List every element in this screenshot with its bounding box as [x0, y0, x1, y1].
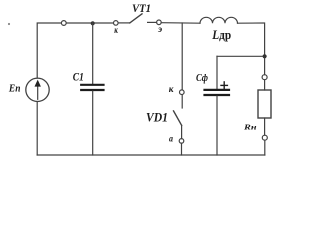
transistor VT1 collector stub — [118, 22, 130, 24]
transistor VT1 collector contact circle — [114, 21, 119, 26]
svg-text:а: а — [169, 134, 173, 144]
capacitor Cf top plate — [205, 89, 230, 91]
wire top rail inductor to right corner and down — [238, 23, 265, 54]
wire Cf vertical lower — [216, 96, 218, 155]
wire VD1 anode to bottom rail — [181, 143, 183, 155]
diode VD1 switch blade — [174, 111, 182, 125]
wire top rail terminal to junction — [66, 22, 92, 24]
capacitor Cf bottom plate — [205, 94, 230, 96]
wire C1 branch lower — [92, 91, 94, 155]
node Rn bottom terminal circle — [262, 135, 267, 140]
wire top rail emitter to inductor — [161, 22, 200, 25]
diode VD1 cathode contact circle — [180, 90, 185, 95]
wire top rail junction to VT1 collector — [95, 22, 114, 24]
wire C1 branch upper — [92, 23, 94, 84]
svg-text:Cф: Cф — [196, 73, 209, 84]
node open terminal on top rail — [61, 21, 66, 26]
svg-text:VD1: VD1 — [146, 109, 168, 124]
wire top-left rail — [37, 23, 61, 78]
diode VD1 anode contact circle — [179, 139, 184, 144]
wire left rail below source — [36, 102, 38, 156]
transistor VT1 emitter stub — [148, 21, 157, 23]
inductor Ldr humps — [200, 17, 238, 23]
svg-text:VT1: VT1 — [132, 1, 151, 15]
transistor VT1 switch blade — [130, 14, 142, 23]
svg-text:Eп: Eп — [8, 84, 21, 95]
capacitor C1 bottom plate — [81, 89, 103, 91]
wire Rn bottom terminal to bottom rail — [264, 140, 266, 155]
wire Cf horizontal branch — [217, 55, 263, 57]
node junction dot C1 / top rail — [91, 21, 95, 25]
svg-text:C1: C1 — [73, 71, 84, 83]
wire right rail dot to Rn top terminal — [264, 58, 266, 74]
svg-text:э: э — [157, 25, 162, 35]
wire Rn terminal to resistor — [264, 80, 266, 90]
source Ep arrow shaft — [37, 86, 39, 99]
node junction dot right rail / Cf branch — [263, 54, 267, 58]
wire resistor to bottom terminal — [264, 118, 266, 135]
node Rn top terminal circle — [262, 75, 267, 80]
source Ep circle — [26, 78, 49, 101]
label plus (Cf polarity) horizontal bar — [221, 84, 227, 86]
capacitor C1 top plate — [81, 84, 103, 86]
transistor VT1 emitter contact circle — [157, 20, 162, 25]
wire VD1 branch from top rail — [181, 23, 183, 90]
resistor Rn body — [258, 90, 271, 118]
svg-text:Rн: Rн — [243, 122, 258, 131]
wire Cf vertical upper — [216, 56, 218, 88]
wire VD1 blade to anode contact — [181, 125, 183, 138]
source Ep arrowhead — [35, 80, 41, 87]
svg-text:Lдр: Lдр — [211, 28, 231, 42]
wire bottom rail — [37, 154, 265, 156]
diode VD1 cathode stub — [181, 95, 183, 108]
stray scan dot — [8, 23, 10, 25]
label plus (Cf polarity) vertical bar — [223, 82, 225, 89]
